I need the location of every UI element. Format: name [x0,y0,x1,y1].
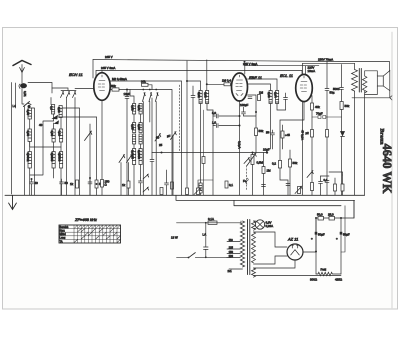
wire [31,108,34,195]
wire cross links [30,142,61,148]
svg-text:110: 110 [229,238,234,242]
coil row3 right [60,152,63,169]
wire grid drop [301,71,303,75]
wire AZ cathode out [303,251,316,253]
filter cap line [316,218,318,252]
svg-text:13 W: 13 W [171,236,178,240]
coil L row2 left [28,129,31,142]
resistor 1k [127,181,130,188]
wire ECH cathode down [101,100,103,195]
output transformer primary [352,63,358,91]
volume pot [251,155,254,165]
IF can 1 coil a [199,91,202,104]
svg-text:µµ: µµ [266,130,270,134]
tuning arrow 3 [171,132,177,140]
wire verticals to bus [143,102,156,196]
svg-text:0,0002: 0,0002 [26,153,30,162]
primary taps [227,242,243,270]
svg-text:µ2: µ2 [306,131,310,135]
trimmer arrow mid [155,134,161,142]
mains cord [177,256,189,258]
table columns [74,225,117,243]
coil L row1 left [28,108,31,119]
G1: antenna and left band-switch coil bank [5,61,365,210]
trimmer cap 50 [60,179,64,195]
wire [62,108,79,195]
svg-text:Bereich: Bereich [60,225,69,229]
coil row3 mid [52,152,55,169]
junction [161,152,163,154]
svg-text:25: 25 [159,143,163,147]
resistor mid1 [311,130,314,138]
OPT secondary [363,76,367,93]
wire EBF cathode down [239,101,241,195]
resistor 1M 0,4 [207,83,224,85]
svg-text:40: 40 [35,181,39,185]
cap on bus [139,178,143,195]
wire right riser [341,206,345,252]
dial lamp [255,220,264,229]
cap top right [271,130,275,149]
svg-text:0,88: 0,88 [50,131,54,137]
cap 50uF out [325,62,329,117]
mains switch lever [189,253,196,258]
svg-text:47 0,1A: 47 0,1A [301,130,305,140]
wire [90,117,97,195]
cap det [284,93,288,110]
svg-text:0,0005: 0,0005 [131,150,135,159]
junction [126,89,128,91]
svg-text:2x1: 2x1 [228,269,233,273]
rail B left drop [95,71,97,79]
diode [341,132,345,136]
HT rail A 245V [93,60,390,62]
tuning capacitor arrow [85,131,92,141]
TA dashed lead [246,166,248,191]
antenna lead arrow [20,68,25,73]
resistor on bus [160,188,163,195]
heater winding top [252,221,256,230]
svg-text:0,51: 0,51 [137,105,141,111]
svg-text:µF: µF [167,134,171,138]
wire ECH plate top [101,71,103,73]
coil row2 right [139,123,142,133]
wire speaker return [352,91,392,100]
bus step 3 [234,200,341,205]
tube ECH11 [94,73,110,101]
switch contact arrows [61,92,64,98]
resistor 1M right [258,95,261,101]
wire to osc coil [130,90,134,104]
cap 10u diode [248,97,252,99]
resistor 30k [142,83,149,86]
cap 0,1u [225,181,228,188]
pot arrow mid [307,171,313,178]
resistor 50,0 [318,216,324,220]
table X marks row4 [81,236,120,239]
table header marks [75,225,121,228]
svg-text:Feld: Feld [321,268,327,272]
svg-text:0,53: 0,53 [131,105,135,111]
wire IF2 primary top [247,79,277,91]
svg-text:245 V: 245 V [105,55,113,59]
coil row2 right [60,129,63,142]
wire ECL cathode down [302,101,304,195]
svg-text:+45: +45 [285,133,290,137]
wire OPT primary down [353,92,356,219]
wire antenna tap [28,83,52,94]
resistor 45 [281,131,284,138]
antenna coupling coil [20,83,27,88]
AVC line [152,152,267,154]
resistor 1k [76,180,79,188]
svg-text:125: 125 [229,245,234,249]
wire [263,153,265,196]
wire [244,112,257,128]
OPT core [359,69,361,93]
junction 10uF [266,151,268,153]
junction [244,60,246,62]
wire bus up to OPT [364,95,366,196]
osc coil row1 right [139,104,142,115]
heater winding bottom [252,268,256,277]
pot on bus [197,188,200,195]
wire riser 2 [341,200,354,218]
svg-text:40: 40 [39,123,43,127]
wire riser left coils [29,119,31,195]
svg-text:0,56: 0,56 [137,124,141,130]
resistor bank4 [341,184,344,191]
wire to IF1 primary [187,81,201,91]
wire long vertical x187 [186,61,188,195]
svg-text:0,2: 0,2 [272,162,276,166]
svg-text:L4: L4 [13,104,17,108]
svg-text:Kurz: Kurz [60,229,66,233]
cap 70uF [312,116,342,119]
IF can 2 coil b [276,91,279,104]
svg-text:ECL 11: ECL 11 [280,73,293,78]
coil row2b right [139,134,142,144]
wire [121,163,129,196]
wire HV top to AZ plate [254,232,288,247]
svg-text:70µF: 70µF [316,112,323,116]
svg-text:150: 150 [229,250,234,254]
cap [88,178,92,195]
switch diode arrow 2 [55,121,59,124]
svg-text:1M: 1M [267,169,272,173]
svg-text:ECH 11: ECH 11 [69,72,83,77]
G3: EBF11 and AF chain [160,60,288,196]
cap 100pF [242,107,246,116]
wire [151,98,153,153]
svg-text:+: + [311,237,313,241]
svg-text:5000: 5000 [333,87,340,91]
resistor 50k [255,128,258,136]
svg-text:ZF=468 kHz: ZF=468 kHz [74,217,97,222]
cap bank2 [325,172,329,195]
cap IF in [191,86,195,195]
wire 245V 6mA feed [245,61,319,74]
svg-text:50,0: 50,0 [317,213,323,217]
resistor [95,180,98,188]
svg-text:1M 0,4: 1M 0,4 [222,79,231,83]
wire screen feed [305,66,307,75]
transformer core [248,220,250,275]
cap below 1M [262,185,266,187]
trimmer cap 40 [30,179,34,195]
junction dots psu [315,217,317,219]
heater wires [254,260,342,276]
svg-text:0,10: 0,10 [58,131,62,137]
wire [212,110,214,195]
shield dashed [179,85,181,152]
wire secondary to speaker [365,71,378,95]
svg-text:0,88: 0,88 [26,131,30,137]
svg-text:1M: 1M [259,91,264,95]
junction dots [142,89,144,91]
svg-text:1,04: 1,04 [274,92,278,98]
svg-text:50µ: 50µ [330,91,335,95]
cap LA [204,223,209,257]
svg-text:50: 50 [65,181,69,185]
switch contact arrow low2 [143,187,149,192]
svg-text:0,8: 0,8 [50,106,54,110]
wire IF1 sec feed [206,60,208,91]
G2: rails, ECH11 and mid coils [69,55,390,195]
wire diode out [248,95,257,112]
cap mid [150,153,154,196]
antenna [13,61,31,66]
coil L row3 left [28,152,31,169]
svg-text:0,1: 0,1 [229,183,233,187]
wire grid link [59,116,97,118]
svg-text:10µF: 10µF [263,148,270,152]
svg-text:0,1A: 0,1A [208,217,214,221]
IF can 1 coil b [206,91,209,104]
svg-text:0,5598: 0,5598 [58,153,62,162]
bus step 2 [176,195,355,200]
svg-text:245 V 6mA: 245 V 6mA [243,62,257,66]
wire switch feed [143,90,172,196]
svg-text:40k: 40k [315,105,320,109]
wire left bypass [24,107,26,196]
svg-text:0,0008: 0,0008 [137,150,141,159]
resistor 50k [110,89,112,91]
junction [239,125,241,127]
rail A right drop [389,62,391,71]
svg-text:0,93: 0,93 [204,92,208,98]
ground bus [5,194,365,196]
svg-text:Fe: Fe [243,179,247,183]
svg-text:50k: 50k [259,129,264,133]
switch contact arrow low1 [143,174,149,179]
chassis ground arrow [9,195,17,209]
mains top line with fuse [177,222,209,224]
wire [60,118,62,196]
svg-text:TA: TA [60,239,63,243]
svg-text:+: + [336,237,338,241]
resistor on wire [171,182,174,189]
wire mid coil risers [53,114,55,178]
table rows [59,229,121,240]
svg-text:Mittel: Mittel [60,232,67,236]
svg-text:50k: 50k [293,161,298,165]
wire antenna down [21,65,23,84]
svg-text:25,0: 25,0 [328,213,334,217]
cap 5000 plate [340,65,344,102]
pot hum [298,187,301,194]
speaker [377,76,383,86]
wire [119,89,143,91]
wire coil risers [134,114,141,195]
G4: ECL11, output transformer, speaker [266,32,394,308]
svg-text:0,50: 0,50 [57,107,61,113]
coil row3 right [139,149,142,165]
shield wall [11,83,13,195]
cap 1,0 [213,124,240,128]
svg-text:220: 220 [229,254,234,258]
wire vertical feeds [51,98,75,196]
wire ECH anode right [110,81,181,195]
coil row2 mid [52,129,55,142]
svg-text:415Ω: 415Ω [335,278,343,282]
wire HV bottom to AZ plate [254,256,288,264]
switch diode arrow [53,116,58,120]
junction [31,178,33,180]
cap 5,0 [213,114,240,118]
svg-text:50k: 50k [345,104,350,108]
svg-text:150V 70mA: 150V 70mA [318,58,333,62]
HT rail B 245V 8mA [96,70,302,72]
tube AZ11 [287,244,303,260]
cap bias [286,184,290,186]
cap on bus 2 [165,170,169,195]
transformer primary [240,221,244,267]
switch arrows mid [143,93,146,102]
coil row2b [133,134,136,144]
svg-text:0,5M: 0,5M [257,161,264,165]
table X marks row3 [85,232,117,235]
resistor cathode [101,180,104,188]
coil row1 right [59,106,62,118]
coil pair row3 [133,149,136,165]
svg-text:50µF: 50µF [318,233,325,237]
cap bank [319,176,323,195]
IF can 2 coil a [269,91,272,104]
tube EBF11 [232,73,248,101]
wire IF2 bottoms [271,104,286,150]
rail A left drop [92,60,94,79]
electrolytic 1 [315,218,317,274]
svg-text:M2 0,43mA: M2 0,43mA [112,77,127,81]
field coil resistor [316,272,341,276]
choke bottom [199,183,202,193]
G5: power supply, table, title [59,200,354,281]
resistor bank3 [334,184,337,191]
wire ECL cathode [280,101,304,160]
resistor 50k2 [289,159,292,167]
wire [203,110,205,195]
electrolytic 2 [340,218,342,274]
svg-text:0,1µA: 0,1µA [238,141,242,149]
tuning arrows osc [119,155,125,163]
svg-text:300Ω: 300Ω [310,278,318,282]
svg-text:50k: 50k [111,84,116,88]
table X marks row5 [74,239,120,242]
table X marks row2 [78,229,114,232]
svg-text:10mA: 10mA [308,69,316,73]
junction [255,111,257,113]
svg-text:50µF: 50µF [343,233,350,237]
coil pair row2 [133,123,136,133]
band table frame [59,225,121,243]
resistor 25,0 [329,216,335,220]
svg-text:0,26A: 0,26A [266,224,274,228]
svg-text:Lang: Lang [60,236,66,240]
svg-text:100µF: 100µF [240,103,248,107]
resistor 1M AVC [262,167,265,174]
tube ECL11 [296,74,313,101]
junction [239,115,241,117]
coil row1 mid [52,105,55,115]
svg-text:AZ 11: AZ 11 [287,237,298,242]
TA switch arrow [244,158,250,164]
resistor 0,1 left [202,157,205,164]
svg-text:0,55: 0,55 [131,124,135,130]
wire links top bank [321,172,343,176]
svg-text:0,3885: 0,3885 [50,153,54,162]
wire [255,136,257,153]
svg-text:245 V 8mA: 245 V 8mA [101,66,115,70]
resistor 50k out [340,102,343,110]
svg-text:0,50: 0,50 [26,110,30,116]
svg-text:0,92: 0,92 [197,92,201,98]
wire IF1 bottoms [201,104,214,196]
band switch arm [24,102,32,107]
Fe symbol [246,178,249,184]
svg-text:4640 WK: 4640 WK [380,144,394,194]
resistor mid2 [326,130,329,138]
HV winding [252,232,256,263]
svg-text:0,51: 0,51 [23,91,27,97]
svg-text:1,03: 1,03 [267,92,271,98]
resistor on bus 2 [186,188,189,195]
osc coil pair row1 [133,104,136,115]
wire switch top feed [52,88,76,91]
resistor 0,2 [278,161,281,169]
resistor 400 below ECL [311,96,313,104]
svg-text:30k: 30k [141,79,146,83]
wire ECL plate top [303,63,355,74]
scan fold line [391,32,393,308]
wire pot [252,153,254,196]
wire ECH grid left [75,88,94,90]
lamp wires [254,221,256,229]
wire [22,89,24,105]
resistor r bank1 [311,183,314,191]
junction [186,80,188,82]
mains to tap [195,256,227,258]
